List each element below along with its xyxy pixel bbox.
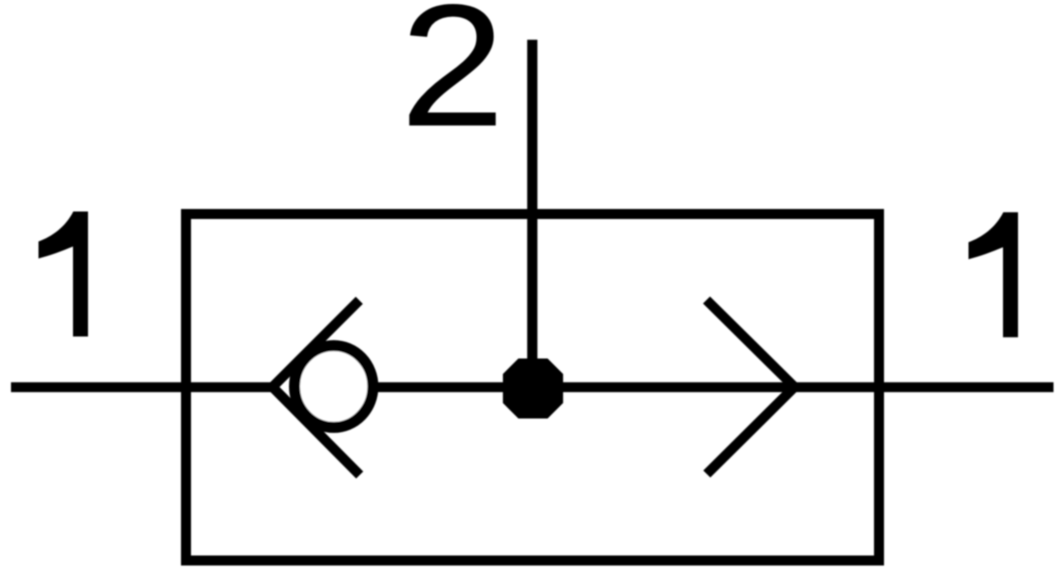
svg-text:2: 2 xyxy=(400,0,505,163)
